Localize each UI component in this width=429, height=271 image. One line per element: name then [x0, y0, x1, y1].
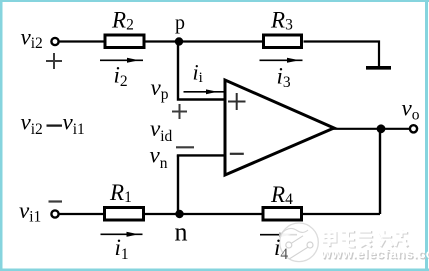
resistor R3	[264, 35, 302, 48]
polarity - of v_id	[176, 146, 194, 148]
node output	[377, 124, 386, 133]
wire op-amp output to node	[333, 128, 381, 130]
current arrow i4	[260, 232, 297, 237]
terminal v_o	[410, 125, 417, 132]
label v_i2 - v_i1	[21, 110, 85, 139]
watermark elecfans logo	[280, 223, 319, 262]
wire node n to R4	[180, 213, 262, 215]
current arrow i2	[100, 58, 143, 63]
wire v_n input to node n	[177, 154, 226, 156]
svg-text:www.elecfans.com: www.elecfans.com	[320, 246, 429, 261]
terminal v_i1	[51, 210, 58, 217]
wire node p to R3	[179, 40, 262, 42]
resistor R4	[263, 208, 302, 221]
wire R4 to output corner	[303, 213, 380, 215]
node p	[175, 37, 183, 45]
wire v_i1 to R1	[59, 213, 104, 215]
resistor R2	[105, 35, 144, 48]
op-amp U1	[225, 80, 334, 175]
polarity + of v_i2	[46, 53, 62, 69]
polarity - of v_i1	[49, 200, 63, 202]
resistor R1	[105, 208, 144, 221]
wire R1 to node n	[145, 213, 180, 215]
terminal v_i2	[51, 38, 58, 45]
ground	[366, 66, 391, 70]
current arrow i3	[260, 58, 303, 63]
wire R2 to node p	[146, 40, 180, 42]
wire node p down to + input of op-amp	[178, 43, 226, 100]
polarity + of v_id	[172, 104, 187, 119]
current arrow i_i	[184, 89, 226, 94]
wire output node down to feedback rail	[379, 129, 381, 214]
wire v_i2 to R2	[59, 40, 104, 42]
watermark url	[320, 246, 429, 262]
current arrow i1	[101, 232, 143, 237]
wire R3 to ground corner	[304, 42, 380, 67]
watermark text dian zi fa shao you	[323, 229, 408, 247]
svg-text:n: n	[175, 218, 188, 247]
node n	[175, 210, 183, 218]
wire output node to terminal v_o	[381, 128, 410, 130]
svg-text:p: p	[175, 12, 185, 34]
